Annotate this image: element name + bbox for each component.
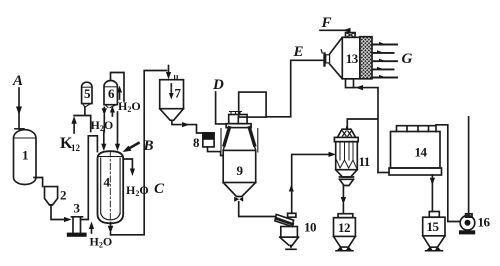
- svg-text:6: 6: [108, 86, 115, 101]
- wire line into reactor dome right nozzle: [115, 112, 120, 151]
- label 7: [175, 86, 182, 101]
- label 8: [193, 135, 200, 150]
- wire vessel2 to pump3: [51, 205, 72, 222]
- svg-text:H2O: H2O: [126, 183, 149, 198]
- feeder 10 inclined chute: [275, 214, 294, 226]
- hopper 15: [423, 212, 445, 248]
- label 9: [237, 163, 244, 178]
- label H2O right of vessel 6: [118, 99, 141, 114]
- label 11: [359, 154, 370, 169]
- wire arrow down into vessel 7: [166, 66, 171, 80]
- node A: [12, 73, 23, 89]
- node B: [143, 138, 154, 154]
- svg-text:G: G: [402, 51, 413, 67]
- vessel 7: [160, 76, 184, 121]
- wire short up arrow right of vessel6 bottom: [110, 106, 115, 117]
- scrubber 11 cap: [338, 127, 356, 137]
- svg-text:9: 9: [237, 163, 244, 178]
- wire pump3 up and over into reactor top: [81, 136, 98, 220]
- node E: [293, 44, 304, 60]
- vessel 2: [45, 187, 58, 205]
- label 3: [74, 201, 81, 216]
- wire dryer9 outlet to feeder 10: [239, 202, 276, 217]
- filter 13 mesh panel: [360, 37, 372, 79]
- svg-text:11: 11: [359, 154, 370, 169]
- label 15: [427, 219, 440, 234]
- svg-text:A: A: [12, 73, 23, 89]
- wire pump16 discharge up: [468, 117, 470, 215]
- svg-text:F: F: [321, 15, 332, 31]
- wire recirculation reactor drain to vessel 7 (C line): [111, 71, 167, 235]
- hopper 12: [334, 214, 356, 247]
- spray dryer 9 atomizer cap: [226, 112, 251, 128]
- svg-text:D: D: [212, 77, 224, 93]
- filter 13 expansion cone: [330, 37, 343, 79]
- svg-text:E: E: [293, 44, 304, 60]
- svg-text:15: 15: [427, 219, 440, 234]
- svg-text:12: 12: [338, 220, 350, 235]
- vessel 6: [104, 81, 117, 108]
- svg-text:12: 12: [71, 143, 81, 153]
- scrubber 11 bottom cones: [336, 170, 358, 186]
- feeder 10 foot: [286, 245, 296, 250]
- node F: [321, 15, 332, 31]
- wire tank14 bottom outlet to hopper 15: [430, 175, 435, 212]
- feeder 10 body and cone: [280, 227, 299, 246]
- wire K12 feed arrow: [71, 116, 76, 133]
- wire dashed arrow inside vessel 7: [169, 84, 174, 100]
- label 2: [60, 188, 66, 203]
- label 5: [84, 86, 91, 101]
- hopper 12 feet: [336, 246, 353, 251]
- wire vessel7 outlet to pump 8: [172, 120, 203, 133]
- wire loop over vessel 6 (H2O inlet): [111, 73, 125, 102]
- valve at dryer 9 outlet: [234, 197, 243, 202]
- label 16: [478, 215, 491, 230]
- svg-text:1: 1: [22, 148, 28, 163]
- svg-text:H2O: H2O: [91, 118, 114, 133]
- label 1: [22, 148, 28, 163]
- wire B feed arrow into reactor: [123, 143, 139, 152]
- wire D feed into dryer atomizer: [216, 92, 227, 124]
- label 10: [304, 220, 316, 235]
- wire reactor jacket outlet (H2O C side): [123, 159, 135, 176]
- scrubber 11 flange: [334, 137, 358, 141]
- hopper 15 feet: [426, 246, 443, 251]
- svg-text:16: 16: [478, 215, 491, 230]
- wire vessel1 to vessel2: [34, 178, 43, 187]
- tank 14 top band: [397, 126, 437, 132]
- vessel 1: [14, 130, 37, 185]
- wire pump8 to dryer 9: [208, 147, 224, 156]
- wire F vent line: [320, 28, 351, 33]
- filter 13 top vent fitting: [346, 33, 356, 38]
- vessel 5: [82, 82, 92, 107]
- node D: [212, 77, 224, 93]
- pump 8: [203, 133, 214, 147]
- wire tank14 top to pump16 suction: [436, 125, 460, 222]
- label H2O below reactor: [90, 235, 113, 250]
- label 4: [104, 175, 111, 190]
- label 6: [108, 86, 115, 101]
- svg-text:8: 8: [193, 135, 200, 150]
- svg-text:14: 14: [415, 145, 428, 160]
- reactor 4: [98, 151, 124, 223]
- tank 14 body: [389, 132, 442, 176]
- wire jacket water inlet arrow bottom left: [89, 222, 94, 234]
- svg-text:H2O: H2O: [118, 99, 141, 114]
- wire arrow on leg line: [356, 85, 364, 90]
- svg-text:10: 10: [304, 220, 316, 235]
- label 12: [338, 220, 350, 235]
- wire filter13 dust line down to scrubber 11: [347, 88, 378, 173]
- label K12: [60, 135, 81, 153]
- spray dryer 9 roof: [221, 128, 258, 152]
- svg-text:4: 4: [104, 175, 111, 190]
- label H2O right of reactor: [126, 183, 149, 198]
- label H2O left (between 5 and 6 lines): [91, 118, 114, 133]
- filter 13 leg: [346, 79, 354, 88]
- svg-text:H2O: H2O: [90, 235, 113, 250]
- wire E-box on dryer top: [238, 92, 266, 124]
- wire tank14 left vent pipe: [378, 172, 389, 174]
- wire up arrow inside loop: [117, 86, 122, 100]
- label 14: [415, 145, 428, 160]
- node C: [154, 181, 165, 197]
- spray dryer 9 body: [223, 150, 256, 196]
- label 13: [346, 51, 359, 66]
- wire E exhaust line to filter 13: [266, 60, 323, 117]
- svg-text:C: C: [154, 181, 165, 197]
- svg-text:7: 7: [175, 86, 182, 101]
- svg-text:2: 2: [60, 188, 66, 203]
- pump 3: [67, 217, 87, 237]
- node G: [402, 51, 413, 67]
- wire vessel6 outlet into reactor with arrows: [101, 108, 107, 152]
- pump 16: [459, 214, 475, 235]
- filter 13 box: [342, 37, 360, 79]
- wire A feed arrow into vessel 1: [15, 88, 24, 129]
- wire scrubber11 outlet to hopper 12: [341, 186, 346, 214]
- svg-text:3: 3: [74, 201, 81, 216]
- scrubber 11 body: [336, 142, 358, 170]
- wire feeder10 vent up to scrubber 11: [289, 152, 336, 214]
- svg-text:13: 13: [346, 51, 359, 66]
- feeder 10 top fitting: [288, 213, 296, 217]
- node G exhaust arrows: [374, 42, 398, 78]
- wire reactor bottom drain: [108, 223, 114, 235]
- svg-text:5: 5: [84, 86, 91, 101]
- filter 13 inlet nozzle: [321, 50, 329, 66]
- wire vessel5 outlet / K12 junction into reactor: [74, 107, 91, 132]
